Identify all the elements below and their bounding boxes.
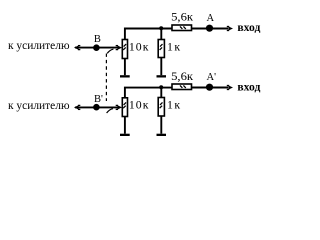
arrow to amplifier (upper left) bbox=[74, 46, 80, 50]
wire: node B to wiper arrow of R1 bbox=[96, 47, 118, 49]
svg-text:А': А' bbox=[207, 72, 217, 83]
wire: R5 bottom lead to ground bbox=[160, 116, 162, 134]
wire: node B' to wiper arrow of R4 bbox=[96, 106, 118, 108]
mechanical link hook from R1 wiper bbox=[107, 49, 113, 53]
resistor R3 5,6к (upper, body) bbox=[172, 25, 192, 31]
wire: R6 right side to node A' bbox=[192, 87, 210, 89]
arrow to amplifier (lower left) bbox=[74, 105, 80, 109]
node A' junction dot bbox=[206, 84, 213, 91]
svg-text:5,6к: 5,6к bbox=[171, 10, 193, 24]
wire: R2 bottom lead to ground bbox=[160, 58, 162, 76]
ground (below R4) bbox=[120, 134, 130, 136]
ground (below R5) bbox=[157, 134, 167, 136]
resistor R5 1к (lower, body) bbox=[158, 98, 164, 117]
svg-text:10к: 10к bbox=[129, 98, 150, 112]
wire: lower left lead from "к усилителю" arrow to node B' bbox=[75, 106, 96, 108]
wire: top rail from R1 top over to R3 bbox=[125, 29, 172, 40]
wire: R3 right side to node A bbox=[192, 28, 210, 30]
mechanical link hook from R4 wiper bbox=[107, 109, 113, 113]
svg-text:В': В' bbox=[94, 94, 103, 105]
mechanical gang dashed link between R1 and R4 bbox=[105, 54, 107, 102]
ground (below R1) bbox=[120, 75, 130, 77]
wire: node A to upper вход arrow bbox=[210, 28, 229, 30]
node B' junction dot bbox=[93, 104, 100, 111]
svg-text:1к: 1к bbox=[167, 40, 182, 54]
arrow вход (lower right) bbox=[227, 85, 233, 89]
wire: R1 bottom lead to ground bbox=[124, 59, 126, 76]
node A junction dot bbox=[206, 25, 213, 32]
resistor R2 1к (upper, body) bbox=[158, 40, 164, 58]
junction dot at R2 top bbox=[159, 26, 163, 30]
wire: R4 bottom lead to ground bbox=[124, 117, 126, 134]
wire: bottom rail from R4 top over to R6 bbox=[125, 88, 172, 98]
potentiometer R1 10к (upper, body) bbox=[122, 40, 127, 59]
junction dot at R5 top bbox=[159, 85, 163, 89]
wiper arrow of R4 bbox=[116, 105, 122, 109]
resistor R6 5,6к (lower, body) bbox=[172, 84, 192, 90]
wire: node A' to lower вход arrow bbox=[210, 87, 229, 89]
wire: upper left lead from "к усилителю" arrow to node B bbox=[75, 47, 96, 49]
svg-text:В: В bbox=[94, 34, 101, 45]
node B junction dot bbox=[93, 44, 100, 51]
svg-text:вход: вход bbox=[237, 20, 260, 34]
wiper arrow of R1 bbox=[116, 46, 122, 50]
svg-text:к усилителю: к усилителю bbox=[8, 98, 70, 112]
svg-text:10к: 10к bbox=[129, 40, 150, 54]
wire: R2 top lead to top rail junction bbox=[160, 29, 162, 40]
wire: R5 top lead to bottom rail junction bbox=[160, 88, 162, 98]
svg-text:вход: вход bbox=[237, 79, 260, 93]
ground (below R2) bbox=[157, 75, 167, 77]
svg-text:к усилителю: к усилителю bbox=[8, 38, 70, 52]
svg-text:1к: 1к bbox=[167, 98, 182, 112]
potentiometer R4 10к (lower, body) bbox=[122, 98, 127, 117]
svg-text:5,6к: 5,6к bbox=[171, 69, 193, 83]
arrow вход (upper right) bbox=[227, 26, 233, 30]
svg-text:А: А bbox=[207, 13, 215, 24]
